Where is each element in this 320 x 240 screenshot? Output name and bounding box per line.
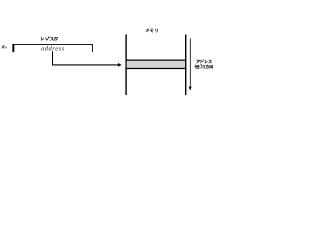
connector wire from register to memory <box>52 51 54 65</box>
メ <box>146 29 149 32</box>
ス <box>209 60 212 63</box>
memory label: メモリ <box>146 29 157 33</box>
加 <box>200 65 204 69</box>
arrowhead pointing right <box>117 63 120 67</box>
address-increase direction arrow (down) <box>189 38 191 87</box>
top line <box>12 43 92 45</box>
方 <box>206 65 209 69</box>
モ <box>150 29 153 32</box>
thick left bar <box>12 44 14 52</box>
cell top border <box>125 59 186 61</box>
ド <box>201 60 204 63</box>
リ <box>155 29 157 32</box>
ア <box>197 60 200 63</box>
direction label line 1: アドレス <box>197 60 212 63</box>
memory right edge <box>185 35 187 96</box>
レ <box>205 60 207 63</box>
register Rn label <box>2 45 7 48</box>
向 <box>210 65 213 68</box>
highlighted memory cell (gray band) <box>127 60 185 68</box>
memory left edge <box>125 34 127 95</box>
タ <box>54 37 58 41</box>
ジ <box>46 37 50 41</box>
増 <box>195 65 199 69</box>
address text <box>41 46 64 51</box>
ス <box>51 37 54 40</box>
register label: レジスタ <box>41 37 57 41</box>
direction label line 2: 増加方向 <box>195 65 213 69</box>
register box (open bottom) <box>12 44 92 52</box>
cell bottom border <box>125 68 186 70</box>
right edge <box>91 44 93 52</box>
レ <box>41 37 44 40</box>
